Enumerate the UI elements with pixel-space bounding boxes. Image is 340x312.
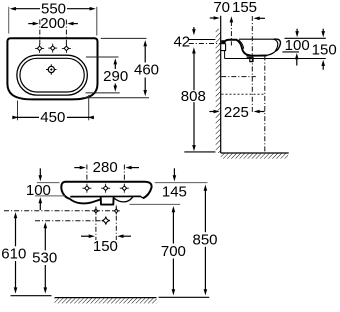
dim 700 [172, 206, 176, 212]
dim 42 [192, 29, 196, 35]
tap hole left [37, 46, 42, 51]
dim 290 [114, 58, 118, 64]
floor extension line right [159, 296, 210, 298]
dim 42 axis line [189, 43, 226, 45]
svg-text:460: 460 [134, 62, 159, 79]
tap hole axis line [230, 21, 232, 46]
dim 100 front extension bottom [35, 195, 65, 197]
dim 100 bottom line [282, 51, 299, 53]
svg-text:145: 145 [162, 184, 187, 201]
svg-text:150: 150 [312, 41, 337, 58]
dim 155 [254, 17, 260, 21]
dim 145 [173, 175, 177, 181]
front view right arc [114, 197, 133, 202]
dim 460 [143, 40, 147, 46]
front view left arc [70, 199, 101, 204]
dim 200 axis line left [39, 20, 41, 46]
dim 200 [33, 22, 39, 26]
dim 610 [14, 212, 18, 218]
svg-text:808: 808 [181, 88, 206, 105]
svg-text:530: 530 [32, 249, 57, 266]
dim 460 extension line top [101, 37, 147, 39]
svg-text:100: 100 [26, 182, 51, 199]
dim 850 [204, 185, 208, 191]
svg-text:150: 150 [93, 238, 118, 255]
dim 290 extension line bottom [86, 92, 120, 94]
dim 550 extension line left [8, 7, 10, 34]
dim 70 [214, 16, 220, 20]
fixing axis line horizontal [221, 76, 256, 78]
dim 150 bottom extension line [270, 58, 326, 60]
front view underside right rise [141, 196, 144, 198]
floor hatching side view [221, 154, 288, 159]
dim 550 [10, 7, 16, 11]
tap hole center [50, 46, 55, 51]
drain fitting side view [246, 55, 253, 57]
wall face line [220, 16, 222, 153]
fixing line 610 level [4, 210, 117, 212]
washbasin front view outline [66, 182, 152, 198]
dim 100 front extension top [37, 182, 60, 184]
dim 450 [12, 116, 18, 120]
dim 42 top line [189, 39, 216, 41]
dim 100 front [39, 175, 43, 181]
svg-text:610: 610 [1, 246, 26, 263]
tap hole right [64, 46, 69, 51]
dim 150 axis left [95, 207, 97, 241]
dim 150 front [89, 234, 95, 238]
dim 280 [80, 166, 86, 170]
fixing hole left [85, 186, 90, 191]
dim 550 extension line right [96, 7, 98, 36]
dim 530 [44, 222, 48, 228]
floor extension line left [11, 295, 52, 297]
svg-text:155: 155 [232, 0, 257, 16]
outlet dotted line [222, 93, 265, 95]
bolt hole left on 610 line [94, 209, 98, 213]
dim 460 extension line bottom [82, 97, 149, 99]
dim 145 extension top [155, 182, 208, 184]
dim 145 extension bottom [130, 203, 181, 205]
fixing line 530 level [35, 220, 100, 222]
basin bowl outer line [17, 55, 88, 95]
dim 150 [321, 31, 325, 37]
dim 280 axis line right [123, 165, 125, 186]
svg-text:100: 100 [285, 37, 310, 54]
dim 280 axis line left [86, 165, 88, 186]
floor hatching front view [55, 297, 157, 299]
dim 100 [295, 31, 299, 37]
drain axis line [251, 16, 253, 113]
svg-text:200: 200 [40, 15, 65, 32]
outlet axis line vertical [264, 56, 266, 153]
washbasin plan view outline [7, 38, 97, 99]
svg-text:290: 290 [103, 68, 128, 85]
drain crosshair symbol [48, 66, 54, 72]
dim 450 extension line left [17, 101, 19, 121]
dim 290 extension line top [86, 56, 119, 58]
dim 808 extension line floor [184, 151, 215, 153]
svg-text:850: 850 [192, 231, 217, 248]
dim 450 extension line right [88, 95, 90, 120]
dim 225 [214, 110, 220, 114]
basin bowl inner line [20, 58, 84, 92]
drain center marker [102, 217, 110, 225]
svg-text:700: 700 [161, 243, 186, 260]
dim 100-150 top extension line [285, 37, 326, 39]
svg-text:42: 42 [173, 34, 190, 51]
front view drain tab [101, 197, 114, 205]
svg-text:280: 280 [93, 159, 118, 176]
fixing hole center [103, 186, 108, 191]
dim 808 [193, 52, 195, 90]
svg-text:70: 70 [213, 0, 230, 16]
wall hatching [216, 29, 221, 153]
basin side profile [221, 40, 225, 44]
bolt hole right on 610 line [114, 209, 118, 213]
front view underside band line [70, 195, 140, 197]
dim 150 axis right [115, 206, 117, 241]
tap axis arrow [230, 16, 234, 22]
svg-text:225: 225 [224, 104, 249, 121]
dim 200 axis line right [65, 20, 67, 46]
fixing hole right [122, 186, 127, 191]
floor line side view [221, 152, 289, 154]
svg-text:450: 450 [40, 109, 65, 126]
